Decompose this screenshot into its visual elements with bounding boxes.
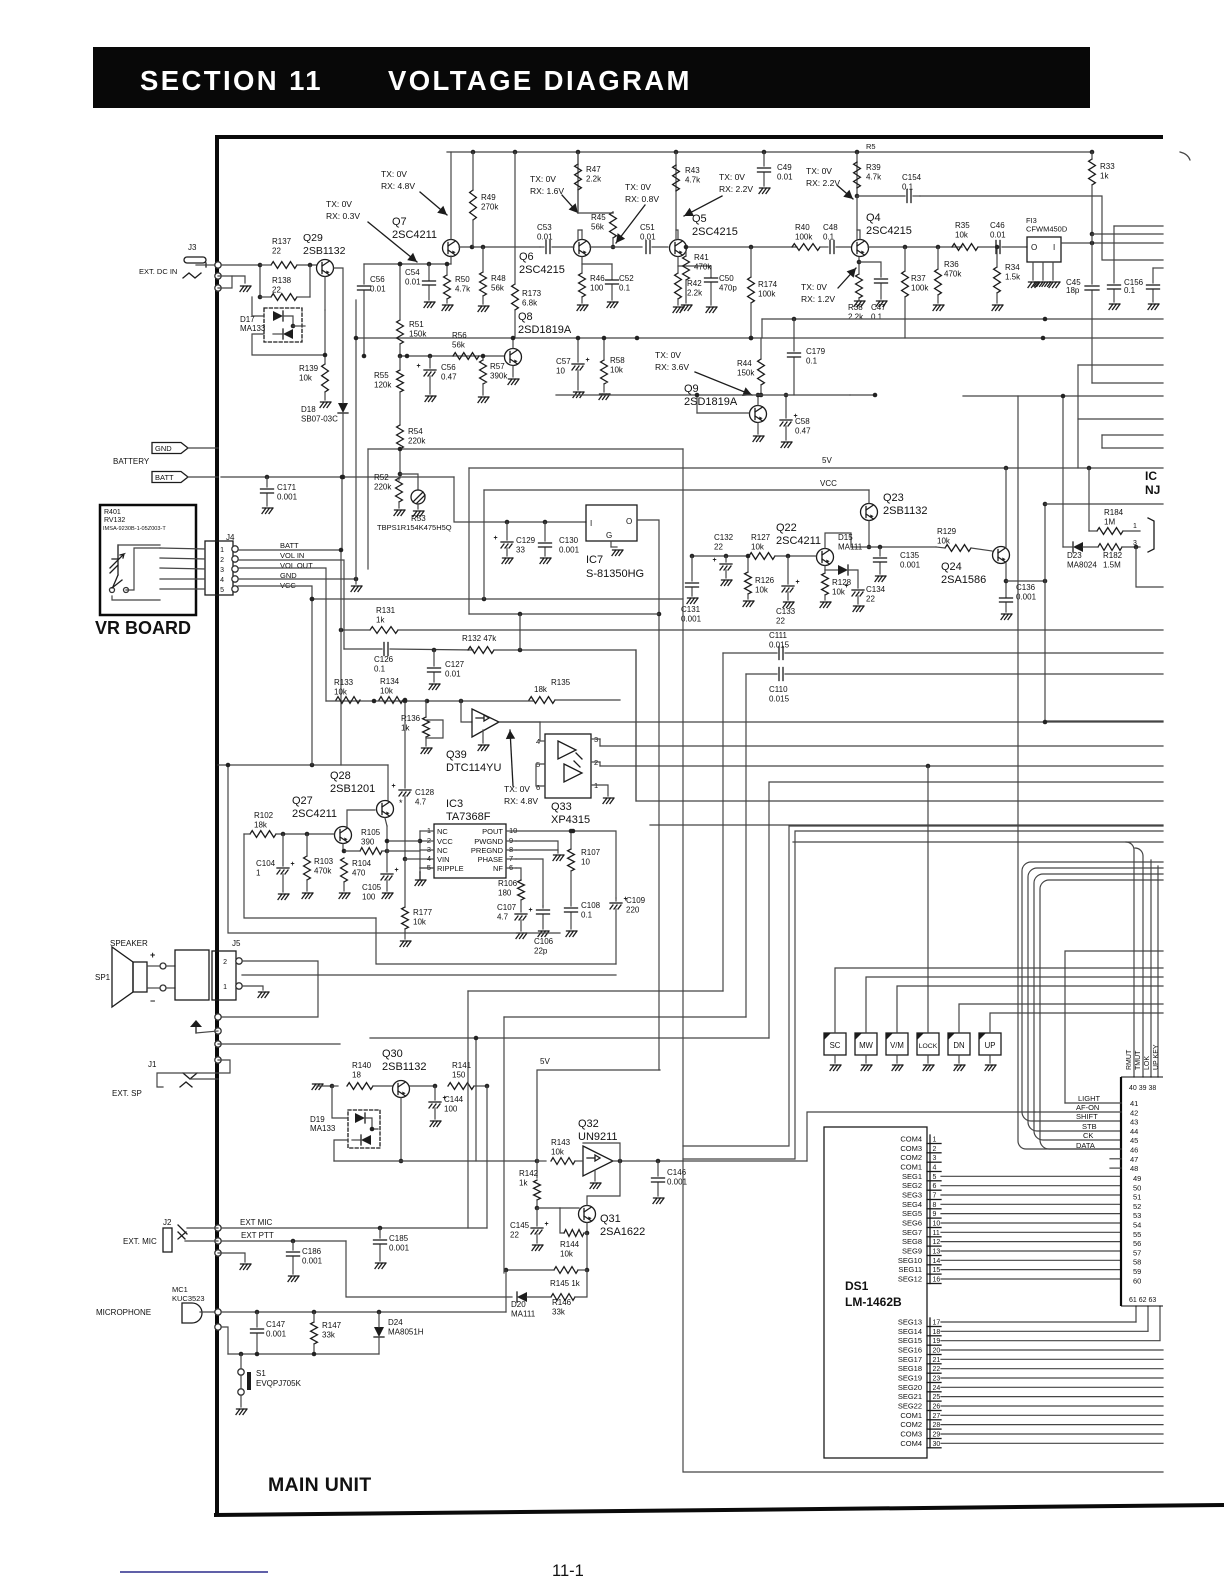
- svg-text:EXT. MIC: EXT. MIC: [123, 1237, 157, 1246]
- svg-text:BATT: BATT: [280, 541, 299, 550]
- Q30 base row: [312, 1084, 323, 1090]
- svg-text:2SB1132: 2SB1132: [382, 1061, 426, 1073]
- svg-text:50: 50: [1133, 1183, 1141, 1192]
- svg-text:+: +: [494, 535, 498, 542]
- transistor Q30: [393, 1081, 410, 1098]
- svg-text:C56: C56: [441, 363, 456, 372]
- svg-text:MAIN UNIT: MAIN UNIT: [268, 1474, 371, 1496]
- resistor R52: [396, 478, 403, 502]
- bus loop y826: [683, 826, 1163, 1146]
- svg-text:Q24: Q24: [941, 561, 962, 573]
- svg-text:SB07-03C: SB07-03C: [301, 415, 338, 424]
- resistor R177: [402, 907, 409, 929]
- wire vert x723: [722, 653, 724, 991]
- svg-text:18p: 18p: [1066, 286, 1080, 295]
- diode D18: [338, 403, 348, 413]
- svg-text:22: 22: [776, 617, 785, 626]
- svg-text:J5: J5: [232, 939, 241, 948]
- svg-text:1: 1: [220, 547, 224, 554]
- svg-text:0.1: 0.1: [823, 233, 835, 242]
- resistor R50: [444, 275, 451, 299]
- wire R137/R138 left join: [259, 265, 261, 297]
- svg-text:R44: R44: [737, 359, 752, 368]
- wire POUT loop: [516, 831, 616, 898]
- svg-text:7: 7: [933, 1193, 937, 1200]
- svg-text:+: +: [545, 1221, 549, 1228]
- resistor R129: [945, 545, 971, 552]
- svg-text:C111: C111: [769, 631, 787, 640]
- svg-text:SEG19: SEG19: [898, 1374, 922, 1383]
- wire Q23 in: [868, 490, 870, 503]
- capacitor C147: [256, 1312, 258, 1327]
- capacitor C56 elec: [429, 356, 431, 368]
- capacitor C48: [820, 246, 828, 248]
- audio input row: [218, 764, 388, 766]
- wire R51 col: [399, 264, 401, 320]
- svg-text:R40: R40: [795, 223, 810, 232]
- capacitor C104 elec: [282, 834, 284, 866]
- svg-text:4.7: 4.7: [415, 798, 427, 807]
- wire battery rail: [221, 476, 454, 478]
- capacitor C46: [979, 246, 994, 248]
- svg-text:C109: C109: [626, 896, 646, 905]
- svg-text:0.015: 0.015: [769, 695, 790, 704]
- svg-text:R36: R36: [944, 260, 959, 269]
- wire 5v reg tap: [469, 613, 659, 615]
- svg-text:C186: C186: [302, 1247, 322, 1256]
- svg-text:C52: C52: [619, 274, 634, 283]
- svg-text:61 62 63: 61 62 63: [1129, 1297, 1156, 1304]
- svg-text:0.01: 0.01: [405, 278, 421, 287]
- svg-text:C130: C130: [559, 536, 579, 545]
- capacitor C130: [544, 522, 546, 541]
- svg-text:22: 22: [866, 595, 875, 604]
- svg-text:6.8k: 6.8k: [522, 299, 538, 308]
- right connector box: [1120, 1077, 1122, 1306]
- svg-text:EVQPJ705K: EVQPJ705K: [256, 1379, 302, 1388]
- svg-text:NC: NC: [437, 846, 448, 855]
- wire J5.1 long: [242, 974, 616, 976]
- svg-text:10: 10: [581, 858, 590, 867]
- svg-text:Q5: Q5: [692, 213, 707, 225]
- svg-text:0.1: 0.1: [581, 911, 593, 920]
- resistor R38: [856, 274, 863, 298]
- resistor R42: [675, 273, 682, 299]
- resistor R136: [423, 717, 430, 737]
- svg-text:MA133: MA133: [240, 324, 266, 333]
- wire J4.3 VOL OUT: [238, 568, 326, 701]
- svg-text:20: 20: [933, 1348, 941, 1355]
- svg-text:2SD1819A: 2SD1819A: [684, 396, 738, 408]
- resistor R49: [470, 190, 477, 220]
- svg-text:R35: R35: [955, 221, 970, 230]
- wire x341 battvert: [340, 550, 342, 630]
- svg-text:C105: C105: [362, 883, 382, 892]
- photocoupler Q33 box: [545, 734, 591, 798]
- wire r102 row: [244, 833, 250, 835]
- bus loop y831: [683, 831, 1163, 1159]
- speaker wires to J5: [166, 965, 175, 967]
- transistor Q24: [993, 547, 1010, 564]
- connector column UPKEY: [1157, 866, 1159, 1077]
- wire J5.1 ground stub: [242, 986, 263, 990]
- svg-text:1k: 1k: [519, 1179, 528, 1188]
- wire q32 out: [613, 1160, 807, 1162]
- resistor R184: [1097, 528, 1123, 535]
- wire bus y395 right: [850, 394, 875, 396]
- svg-text:SEG21: SEG21: [898, 1392, 922, 1401]
- resistor R182: [1098, 544, 1122, 551]
- svg-text:48: 48: [1130, 1164, 1138, 1173]
- svg-text:RX: 2.2V: RX: 2.2V: [806, 178, 840, 188]
- misc left vert x476: [475, 1038, 477, 1161]
- svg-text:TBPS1R154K475H5Q: TBPS1R154K475H5Q: [377, 523, 452, 532]
- svg-text:G: G: [606, 531, 612, 540]
- svg-text:DN: DN: [953, 1041, 964, 1050]
- svg-text:2SC4211: 2SC4211: [392, 229, 437, 241]
- svg-text:R174: R174: [758, 280, 778, 289]
- capacitor C45: [1091, 234, 1093, 284]
- svg-text:COM4: COM4: [900, 1439, 922, 1448]
- svg-text:SEG2: SEG2: [902, 1181, 922, 1190]
- svg-text:VOL OUT: VOL OUT: [280, 561, 313, 570]
- svg-text:R138: R138: [272, 276, 292, 285]
- svg-text:10k: 10k: [551, 1148, 565, 1157]
- svg-text:SHIFT: SHIFT: [1076, 1112, 1098, 1121]
- IC7 ground: [610, 541, 612, 547]
- svg-text:2SC4211: 2SC4211: [292, 808, 337, 820]
- svg-text:2SA1622: 2SA1622: [600, 1226, 645, 1238]
- wire R55 down: [399, 356, 401, 370]
- capacitor C107 elec: [520, 900, 522, 912]
- svg-text:AF-ON: AF-ON: [1076, 1103, 1099, 1112]
- svg-text:VIN: VIN: [437, 855, 450, 864]
- svg-text:3: 3: [1133, 540, 1137, 547]
- svg-text:2.2k: 2.2k: [848, 313, 864, 322]
- wire Q7 out: [459, 246, 540, 248]
- MC1 pins: [215, 1309, 221, 1315]
- svg-text:R131: R131: [376, 606, 396, 615]
- svg-text:0.01: 0.01: [640, 233, 656, 242]
- svg-text:RX: 3.6V: RX: 3.6V: [655, 362, 689, 372]
- svg-text:41: 41: [1130, 1099, 1138, 1108]
- VR board potentiometer RV132: [110, 545, 118, 589]
- wire r145 row: [506, 1269, 554, 1271]
- wire q31 emitter: [586, 1223, 588, 1233]
- svg-text:+: +: [150, 950, 155, 960]
- capacitor C136: [1000, 597, 1013, 599]
- wire bus y449: [368, 448, 683, 450]
- wire IC3 left bracket: [419, 831, 421, 868]
- transistor Q7: [443, 240, 460, 257]
- svg-text:+: +: [713, 557, 717, 564]
- svg-text:26: 26: [933, 1404, 941, 1411]
- wire q9 node line: [556, 394, 850, 396]
- wire Q5 out: [686, 246, 797, 248]
- svg-text:0.1: 0.1: [1124, 286, 1136, 295]
- svg-text:UP KEY: UP KEY: [1153, 1044, 1160, 1070]
- mic bottom rail: [228, 1353, 379, 1355]
- wire J4.1 BATT: [238, 477, 342, 550]
- resistor R107: [568, 849, 575, 871]
- svg-text:4.7: 4.7: [497, 913, 509, 922]
- rounded bus path 1: [1022, 862, 1163, 1121]
- wire audio feed row: [326, 700, 533, 702]
- svg-text:R401: R401: [104, 509, 121, 516]
- svg-text:6: 6: [536, 783, 540, 792]
- svg-text:GND: GND: [155, 444, 172, 453]
- svg-text:390: 390: [361, 838, 375, 847]
- wire r142 node: [536, 1200, 538, 1208]
- svg-text:C135: C135: [900, 551, 920, 560]
- wire PHASE: [516, 859, 543, 906]
- svg-text:COM3: COM3: [900, 1430, 922, 1439]
- svg-text:VCC: VCC: [437, 837, 453, 846]
- svg-text:Q39: Q39: [446, 749, 467, 761]
- svg-text:0.001: 0.001: [277, 493, 298, 502]
- op amp Q32: [583, 1146, 613, 1176]
- capacitor C145 elec: [536, 1208, 538, 1226]
- svg-text:0.01: 0.01: [537, 233, 553, 242]
- diode D23 zener: [1062, 396, 1064, 547]
- capacitor C51: [645, 241, 647, 254]
- wire q39 out: [499, 721, 540, 723]
- resistor R141: [448, 1083, 474, 1090]
- svg-text:100k: 100k: [911, 284, 929, 293]
- resistor R106: [518, 880, 525, 900]
- resistor R142: [534, 1180, 541, 1200]
- svg-text:C145: C145: [510, 1221, 530, 1230]
- svg-text:0.01: 0.01: [370, 285, 386, 294]
- svg-text:J1: J1: [148, 1060, 157, 1069]
- svg-text:IC3: IC3: [446, 798, 463, 810]
- svg-text:NF: NF: [493, 864, 503, 873]
- svg-text:COM2: COM2: [900, 1153, 922, 1162]
- J1 stub wires: [218, 1043, 340, 1045]
- svg-text:Q6: Q6: [519, 251, 534, 263]
- svg-text:EXT. SP: EXT. SP: [112, 1089, 142, 1098]
- svg-text:SEG3: SEG3: [902, 1191, 922, 1200]
- svg-text:18: 18: [933, 1329, 941, 1336]
- right stub y419: [1078, 418, 1163, 420]
- capacitor C54: [428, 264, 430, 280]
- svg-text:14: 14: [933, 1258, 941, 1265]
- svg-text:SEG8: SEG8: [902, 1237, 922, 1246]
- svg-text:42: 42: [1130, 1108, 1138, 1117]
- resistor R146: [551, 1294, 575, 1301]
- svg-text:0.001: 0.001: [1016, 593, 1037, 602]
- svg-text:C53: C53: [537, 223, 552, 232]
- svg-text:9: 9: [933, 1211, 937, 1218]
- svg-text:EXT PTT: EXT PTT: [241, 1231, 274, 1240]
- capacitor C133 elec: [787, 556, 789, 584]
- svg-text:Q29: Q29: [303, 232, 323, 244]
- bus line y825: [650, 824, 1163, 826]
- svg-text:R173: R173: [522, 289, 542, 298]
- svg-text:R146: R146: [552, 1298, 572, 1307]
- wire Q24 collector: [1005, 563, 1007, 597]
- svg-text:TX: 0V: TX: 0V: [655, 350, 681, 360]
- svg-text:C136: C136: [1016, 583, 1036, 592]
- svg-text:57: 57: [1133, 1248, 1141, 1257]
- svg-text:SC: SC: [830, 1041, 841, 1050]
- wire q32 up right: [807, 1112, 1035, 1161]
- svg-text:RX: 2.2V: RX: 2.2V: [719, 184, 753, 194]
- svg-text:12: 12: [933, 1239, 941, 1246]
- svg-text:R144: R144: [560, 1240, 580, 1249]
- bus line y842: [793, 841, 1163, 843]
- R139 ground: [324, 392, 326, 400]
- transistor Q22: [817, 549, 834, 566]
- resistor R132: [468, 647, 494, 654]
- wire r182 down: [1136, 547, 1163, 587]
- svg-text:33k: 33k: [552, 1308, 566, 1317]
- right stub y448: [1102, 447, 1163, 449]
- svg-text:DTC114YU: DTC114YU: [446, 762, 501, 774]
- svg-text:Q23: Q23: [883, 492, 904, 504]
- wire q30 emitter: [400, 1098, 402, 1161]
- svg-text:S1: S1: [256, 1369, 266, 1378]
- connector column RMUT: [1126, 842, 1134, 1077]
- ground flag GND: [152, 443, 188, 454]
- resistor R46: [579, 273, 586, 297]
- svg-text:2SC4215: 2SC4215: [692, 226, 738, 238]
- svg-text:I: I: [1053, 243, 1055, 252]
- svg-text:8: 8: [933, 1202, 937, 1209]
- capacitor C185: [379, 1228, 381, 1238]
- resistor R56: [453, 353, 479, 360]
- svg-text:2SD1819A: 2SD1819A: [518, 324, 572, 336]
- svg-text:29: 29: [933, 1432, 941, 1439]
- transistor Q9: [750, 406, 767, 423]
- svg-text:R33: R33: [1100, 162, 1115, 171]
- svg-text:56: 56: [1133, 1239, 1141, 1248]
- svg-text:R102: R102: [254, 811, 274, 820]
- bus line y746 q33 pin3: [599, 739, 601, 746]
- svg-text:SEG15: SEG15: [898, 1336, 922, 1345]
- svg-text:56k: 56k: [591, 223, 605, 232]
- svg-text:CFWM450D: CFWM450D: [1026, 225, 1068, 234]
- svg-text:R127: R127: [751, 533, 771, 542]
- svg-text:TX: 0V: TX: 0V: [719, 172, 745, 182]
- svg-text:C127: C127: [445, 660, 465, 669]
- svg-text:LIGHT: LIGHT: [1078, 1094, 1101, 1103]
- wire c179 loop: [761, 319, 763, 338]
- svg-text:LOCK: LOCK: [919, 1043, 938, 1050]
- svg-text:R129: R129: [937, 527, 957, 536]
- svg-text:+: +: [291, 861, 295, 868]
- svg-text:220k: 220k: [408, 437, 426, 446]
- resistor R48: [480, 272, 487, 296]
- svg-text:R48: R48: [491, 274, 506, 283]
- wire ext mic: [221, 1227, 487, 1229]
- capacitor C106: [542, 906, 544, 908]
- svg-text:DS1: DS1: [845, 1279, 869, 1293]
- resistor R54: [397, 425, 404, 449]
- svg-text:S-81350HG: S-81350HG: [586, 568, 644, 580]
- wire FI3 out: [1061, 242, 1163, 244]
- svg-text:R128: R128: [832, 578, 852, 587]
- svg-text:5: 5: [220, 587, 224, 594]
- svg-text:SECTION 11: SECTION 11: [140, 65, 323, 96]
- resistor R139: [322, 364, 329, 392]
- wire r140-q30: [373, 1085, 392, 1087]
- svg-text:0.001: 0.001: [900, 561, 921, 570]
- svg-text:47: 47: [1130, 1155, 1138, 1164]
- wire s1 stem: [240, 1354, 242, 1369]
- resistor R47: [575, 164, 582, 190]
- svg-text:D17: D17: [240, 315, 255, 324]
- svg-text:D24: D24: [388, 1318, 403, 1327]
- svg-text:270k: 270k: [481, 203, 499, 212]
- svg-text:MICROPHONE: MICROPHONE: [96, 1308, 151, 1317]
- svg-text:6: 6: [933, 1183, 937, 1190]
- svg-text:+: +: [395, 867, 399, 874]
- rounded bus path 3: [1034, 874, 1163, 1140]
- svg-text:59: 59: [1133, 1267, 1141, 1276]
- svg-text:TX: 0V: TX: 0V: [381, 169, 407, 179]
- svg-text:SEG7: SEG7: [902, 1228, 922, 1237]
- svg-text:R142: R142: [519, 1169, 539, 1178]
- svg-text:−: −: [150, 996, 155, 1006]
- audio row y1161: [334, 1160, 537, 1162]
- svg-text:D18: D18: [301, 405, 316, 414]
- svg-text:LOK: LOK: [1144, 1056, 1151, 1070]
- svg-text:O: O: [626, 517, 632, 526]
- svg-text:RMUT: RMUT: [1126, 1049, 1133, 1070]
- svg-text:SEG1: SEG1: [902, 1172, 922, 1181]
- wire Q9 collector: [757, 395, 759, 405]
- svg-text:RX: 1.2V: RX: 1.2V: [801, 294, 835, 304]
- resistor R135: [529, 697, 555, 704]
- svg-text:49: 49: [1133, 1174, 1141, 1183]
- svg-text:22: 22: [272, 286, 281, 295]
- resistor R103: [304, 856, 311, 880]
- wire R131 row: [341, 629, 370, 631]
- transistor Q28: [377, 801, 394, 818]
- switch S1: [238, 1369, 244, 1375]
- svg-text:390k: 390k: [490, 372, 508, 381]
- svg-text:C144: C144: [444, 1095, 464, 1104]
- svg-text:19: 19: [933, 1338, 941, 1345]
- thermistor R53: [400, 474, 418, 490]
- digital transistor Q39: [472, 709, 499, 737]
- svg-text:22: 22: [272, 247, 281, 256]
- svg-text:30: 30: [933, 1441, 941, 1448]
- svg-text:C107: C107: [497, 903, 517, 912]
- wire ic pin bracket: [1148, 518, 1154, 552]
- transistor Q5: [670, 240, 687, 257]
- svg-text:J2: J2: [163, 1218, 172, 1227]
- svg-text:+: +: [845, 583, 849, 590]
- svg-text:150k: 150k: [737, 369, 755, 378]
- svg-text:R147: R147: [322, 1321, 342, 1330]
- svg-text:IC: IC: [1145, 469, 1157, 483]
- svg-text:R132 47k: R132 47k: [462, 634, 497, 643]
- svg-text:+: +: [417, 363, 421, 370]
- svg-text:+: +: [529, 907, 533, 914]
- svg-text:150: 150: [452, 1071, 466, 1080]
- svg-text:SP1: SP1: [95, 973, 111, 982]
- connector column TMUT: [1135, 848, 1143, 1077]
- svg-text:R45: R45: [591, 213, 606, 222]
- svg-text:1M: 1M: [1104, 518, 1115, 527]
- svg-text:R50: R50: [455, 275, 470, 284]
- title bar: [93, 47, 1090, 108]
- filter FI3 CFWM450D: [1027, 237, 1061, 262]
- resistor R44: [758, 359, 765, 385]
- wire PWGND PREGND gnd: [516, 841, 558, 850]
